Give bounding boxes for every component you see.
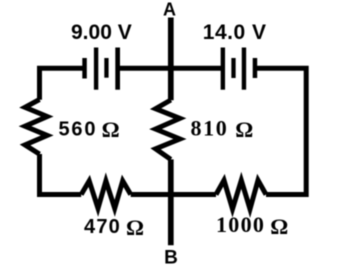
wire bottom-left with bottom-left corner [40, 154, 82, 195]
svg-text:B: B [164, 248, 178, 269]
svg-text:9.00 V: 9.00 V [71, 21, 132, 44]
wire top-left with top-left corner [40, 68, 85, 100]
resistor 810 ohm zigzag [156, 100, 180, 159]
battery V2 14.0 V [223, 48, 255, 90]
plate tall V1b [115, 48, 120, 90]
plate tall V2a [221, 48, 225, 90]
resistor 1000 ohm zigzag [216, 180, 266, 209]
wire bus lower (node B) [168, 159, 174, 245]
svg-text:A: A [163, 0, 176, 20]
svg-text:Ω: Ω [270, 214, 288, 239]
svg-text:470: 470 [84, 216, 121, 238]
resistor 470 ohm zigzag [81, 181, 131, 208]
svg-text:1000: 1000 [216, 212, 265, 237]
svg-text:Ω: Ω [235, 117, 253, 142]
svg-text:Ω: Ω [102, 117, 120, 142]
svg-text:810: 810 [191, 116, 229, 141]
wire top-right, right side and bottom-right corner [255, 68, 306, 194]
plate tall V1a [94, 48, 98, 90]
resistor 560 ohm zigzag [25, 100, 47, 155]
plate tall V2b [242, 48, 246, 90]
plate short middle V1 [104, 58, 108, 78]
wire top-middle [118, 66, 223, 71]
plate short right V2 [253, 58, 258, 78]
battery V1 9.00 V [85, 48, 118, 90]
wire bottom-middle [131, 192, 216, 197]
svg-text:14.0 V: 14.0 V [203, 21, 267, 44]
wire bus upper (node A) [168, 18, 174, 101]
svg-text:Ω: Ω [126, 215, 144, 240]
plate short left V1 [82, 58, 87, 79]
svg-text:560: 560 [59, 119, 98, 141]
plate short middle V2 [231, 58, 235, 78]
